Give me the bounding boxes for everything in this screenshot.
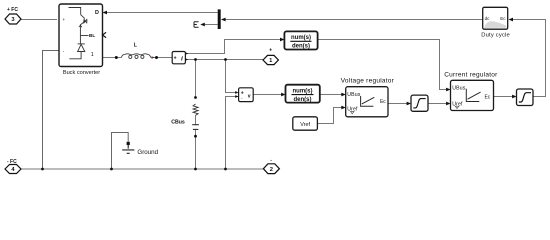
svg-text:Uref: Uref: [452, 102, 463, 108]
svg-text:den(s): den(s): [294, 97, 312, 103]
svg-text:+: +: [174, 56, 177, 62]
svg-text:num(s): num(s): [291, 35, 311, 41]
svg-text:1: 1: [91, 52, 94, 58]
svg-text:Ec: Ec: [380, 99, 386, 105]
svg-text:i: i: [181, 56, 183, 63]
svg-text:dc: dc: [485, 16, 491, 21]
svg-text:UBus: UBus: [452, 86, 465, 92]
svg-text:+ FC: + FC: [7, 7, 18, 13]
svg-text:Duty cycle: Duty cycle: [481, 32, 510, 38]
svg-text:D: D: [95, 10, 99, 16]
svg-text:CBus: CBus: [171, 119, 185, 125]
svg-text:- FC: - FC: [7, 159, 17, 165]
svg-text:2: 2: [270, 167, 273, 173]
svg-text:+: +: [63, 17, 66, 22]
svg-text:num(s): num(s): [293, 88, 313, 94]
svg-text:Ec: Ec: [500, 16, 506, 21]
svg-text:BL: BL: [89, 33, 95, 38]
svg-text:den(s): den(s): [292, 44, 310, 50]
svg-text:Vref: Vref: [300, 122, 310, 128]
svg-text:+: +: [269, 48, 272, 54]
svg-text:Voltage regulator: Voltage regulator: [341, 78, 395, 85]
svg-text:Ground: Ground: [137, 149, 158, 156]
svg-text:v: v: [248, 93, 251, 99]
svg-text:UBus: UBus: [347, 92, 360, 98]
svg-text:Buck converter: Buck converter: [63, 70, 100, 76]
svg-text:Ec: Ec: [484, 94, 490, 100]
svg-text:Current regulator: Current regulator: [444, 72, 498, 79]
